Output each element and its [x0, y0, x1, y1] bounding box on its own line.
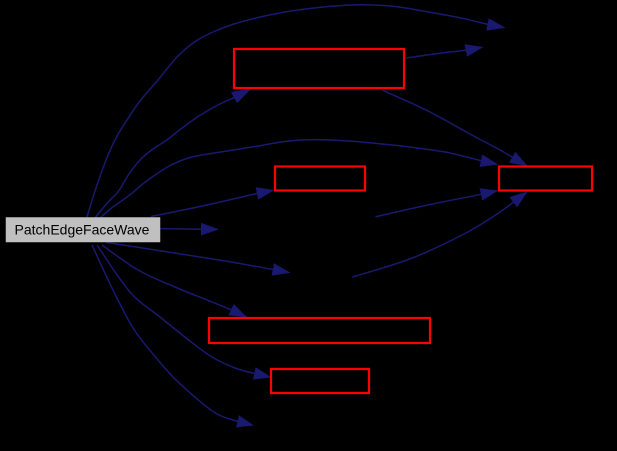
edge node A->box3: [376, 189, 498, 217]
edge PatchEdgeFaceWave->box1: [95, 89, 251, 218]
box4 (truncated, red): [209, 318, 430, 343]
box3 (truncated, red): [499, 167, 592, 191]
box5 (truncated, red): [271, 369, 369, 393]
edge box1->top-right node 2: [406, 45, 482, 58]
box1 (truncated, red): [234, 49, 404, 88]
edge PatchEdgeFaceWave->box4: [102, 245, 246, 317]
edge box1->box3: [382, 90, 527, 166]
svg-text:PatchEdgeFaceWave: PatchEdgeFaceWave: [15, 222, 150, 238]
edge PatchEdgeFaceWave->box2: [151, 188, 273, 217]
edge node B->box3: [353, 192, 527, 277]
edge PatchEdgeFaceWave->node A: [161, 224, 218, 235]
node PatchEdgeFaceWave: [6, 218, 160, 243]
box2 (truncated, red): [275, 167, 365, 191]
edge PatchEdgeFaceWave->bottom node: [92, 245, 253, 427]
edge PatchEdgeFaceWave->node B: [107, 243, 290, 276]
edge PatchEdgeFaceWave->box3: [99, 140, 497, 219]
edge PatchEdgeFaceWave->top-right node: [87, 5, 504, 217]
edge PatchEdgeFaceWave->box5: [97, 245, 270, 379]
